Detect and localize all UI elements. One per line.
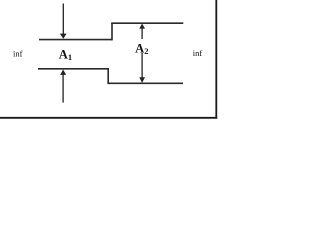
svg-text:inf: inf <box>13 48 23 58</box>
svg-text:A1: A1 <box>59 48 72 63</box>
svg-text:inf: inf <box>193 48 203 58</box>
svg-text:A2: A2 <box>135 41 148 56</box>
